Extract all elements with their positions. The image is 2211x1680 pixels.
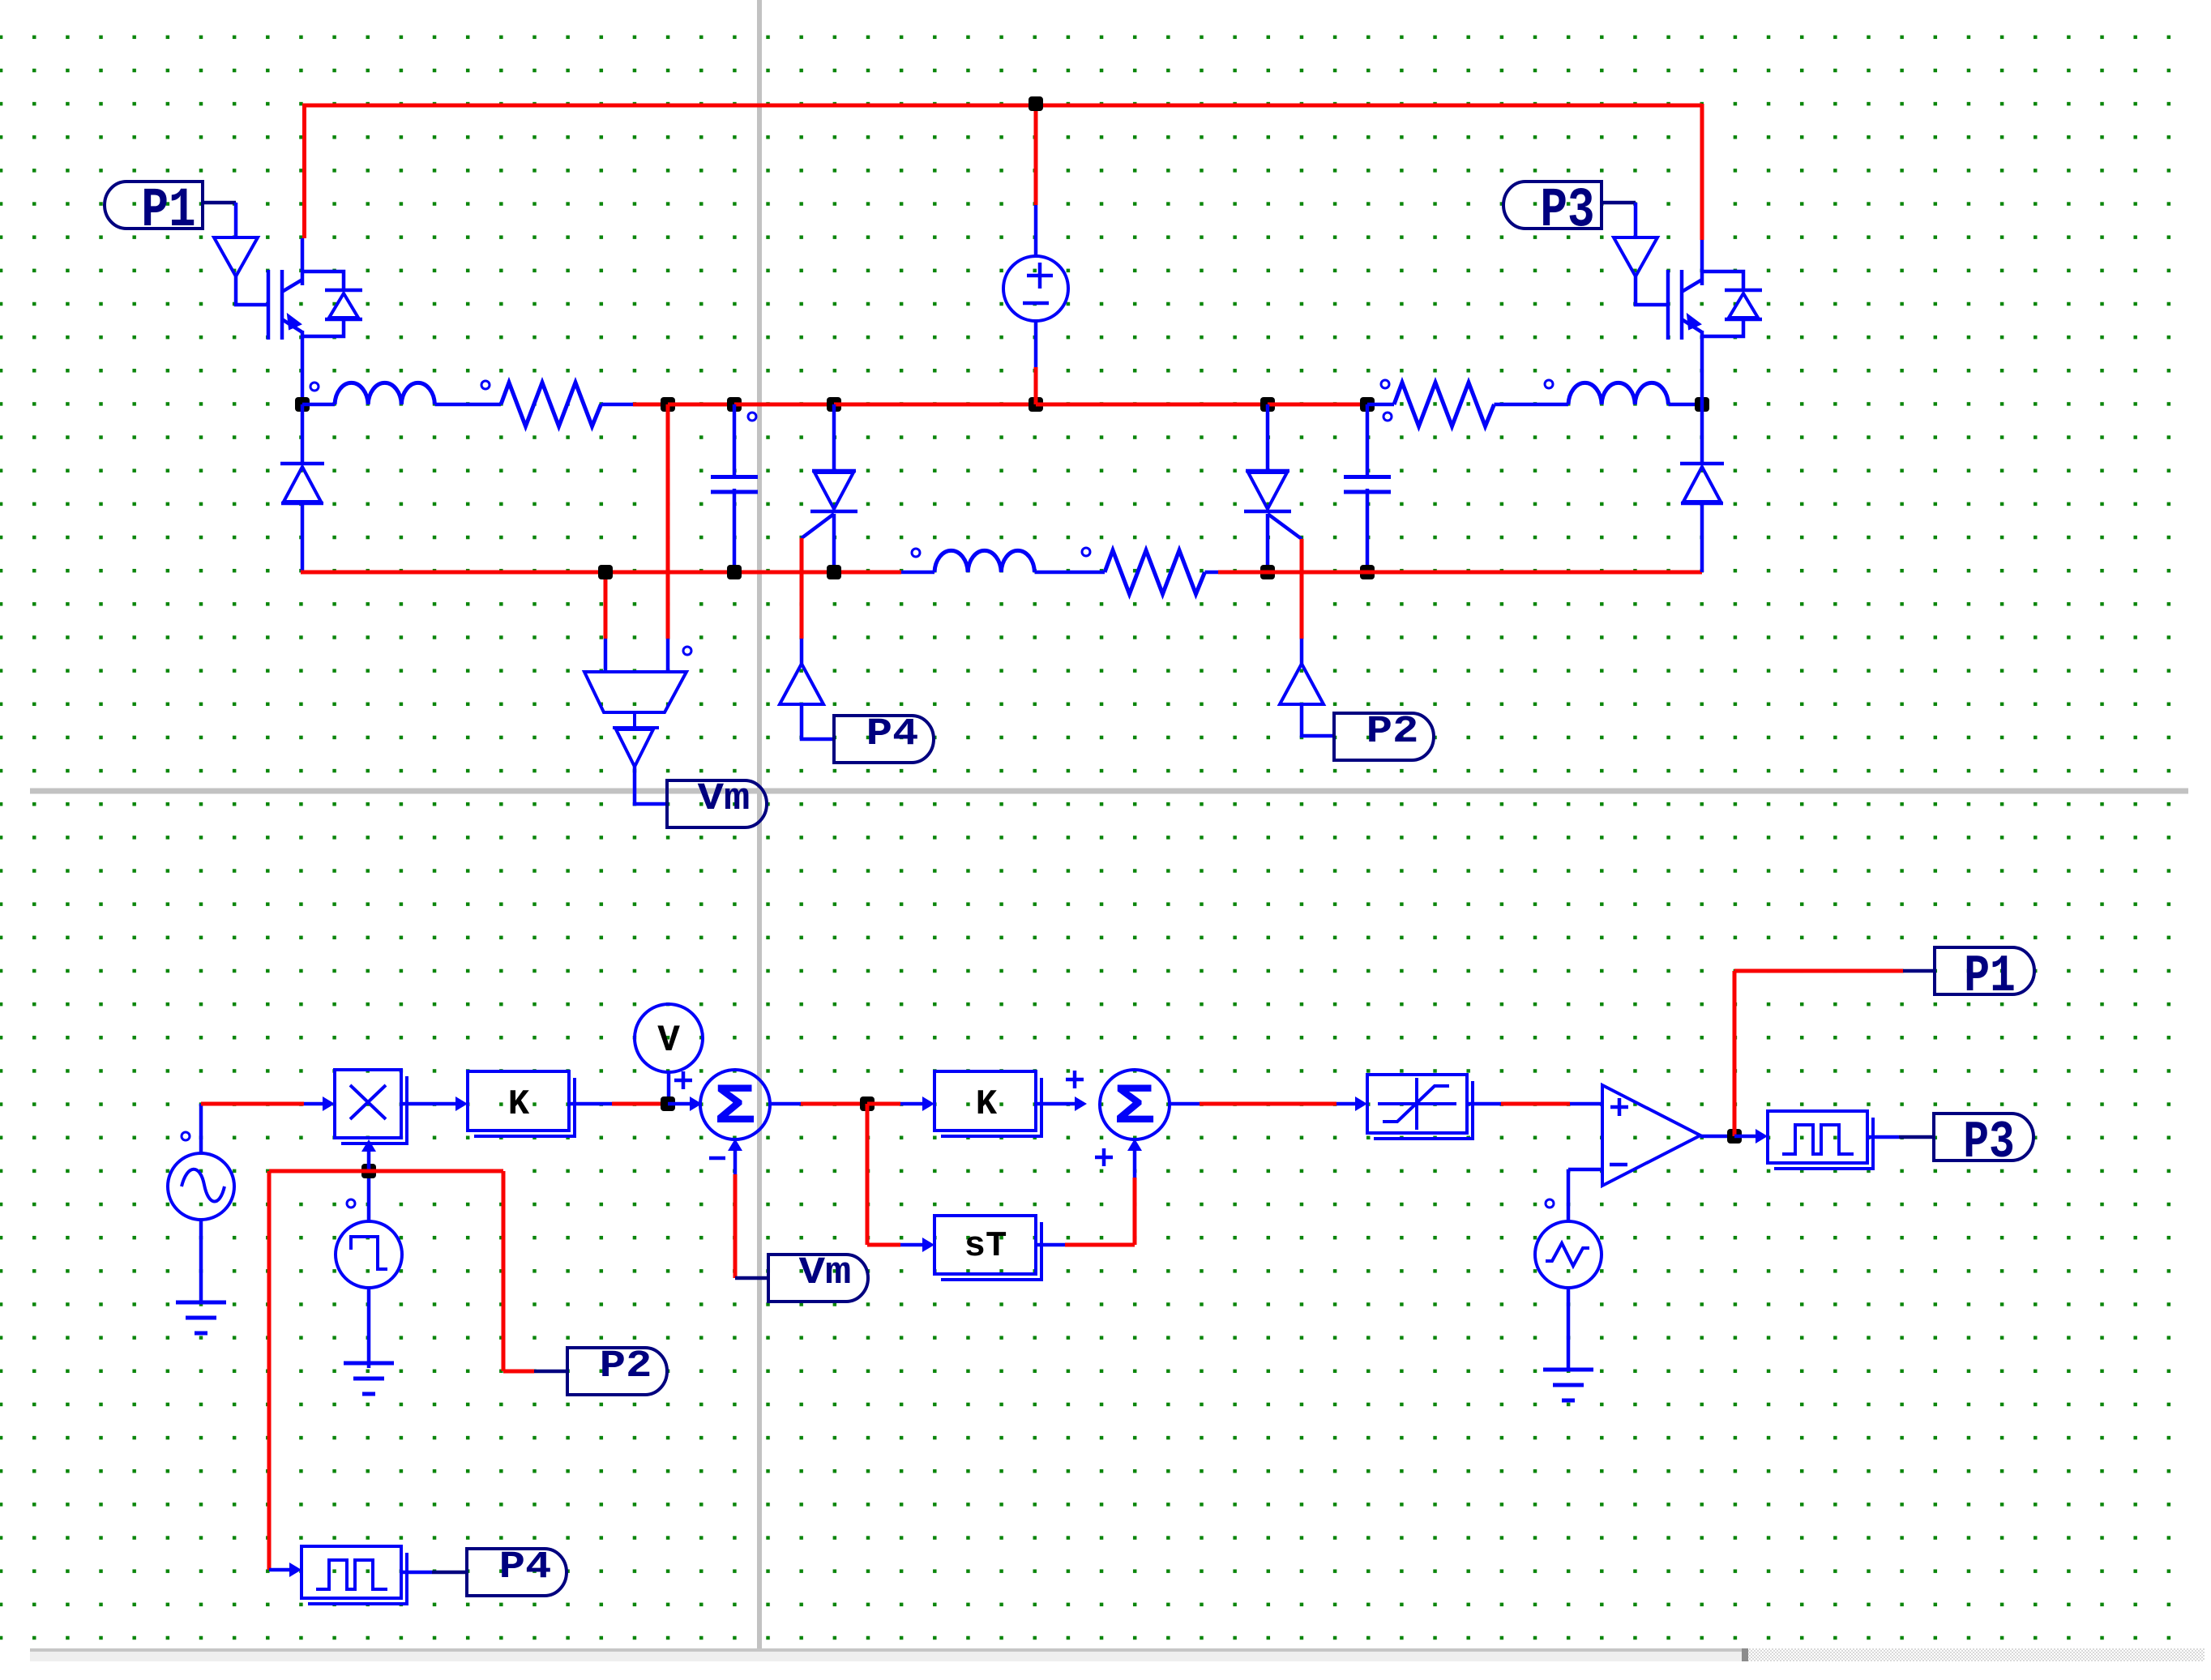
wire into summer S1 [668,1102,691,1106]
wire: P1 flag to gate driver [203,201,236,205]
wire: tee down to derivative sT [866,1104,870,1245]
inductor L1 [302,403,335,407]
terminal marker L2 [1545,380,1553,388]
summer S1 plus sign [674,1071,692,1089]
capacitor C2 [1366,404,1370,475]
svg-text:Vm: Vm [698,778,751,821]
gating block for T1 (P4) [780,664,823,704]
probe label P4 (gate flag) [834,716,934,763]
multiplier block [341,1076,407,1144]
voltage probe V [635,1004,703,1072]
summer S1 minus input from Vm [728,1139,742,1151]
IGBT Q2 with anti-parallel diode [1666,270,1670,340]
terminal marker L3 [912,549,920,557]
svg-text:P2: P2 [1366,711,1419,754]
junction node: C1 bottom [727,565,742,579]
wire: node up to P1 flag (red) [1733,971,1737,1136]
probe label P3 (output flag) [1934,1114,2034,1161]
wire: node to gain K2 [867,1102,900,1106]
svg-text:P3: P3 [1963,1113,2015,1172]
bottom horizontal scrollbar [30,1648,2205,1661]
probe label P1 (gate signal flag) [105,182,203,229]
ground for Vsin1 [176,1301,226,1305]
wire: sT output up to summer S2 [1036,1243,1065,1247]
wire: right rail drop to Q2 collector (red) [1700,104,1704,240]
comparator (op-amp) [1602,1085,1700,1186]
svg-text:P1: P1 [141,179,195,242]
wire: comparator output node [1700,1135,1734,1139]
wire: branch down to on-off controller 2 (red) [267,1171,272,1570]
probe label P1 (output flag) [1935,947,2034,994]
junction node: T2 cathode [1260,565,1275,579]
junction node: top rail to Vdc [1029,96,1043,111]
svg-text:Vm: Vm [799,1252,852,1295]
wire: lower bus right segment (red) [1268,571,1702,575]
resistor R2 [1394,383,1495,426]
gating block for T2 (P2) [1280,664,1324,704]
diode D1 (left leg) [301,404,305,462]
probe label P2 (bottom flag) [567,1348,667,1395]
summer S2 (sigma) [1100,1070,1170,1139]
svg-text:sT: sT [964,1226,1007,1267]
wire: top bus T1 to Vdc (red) [834,403,1036,407]
terminal marker R1 [481,381,490,389]
wire: T1 gate (red) [800,538,804,639]
wire: top bus Vdc to T2 (red) [1036,403,1268,407]
junction node: summer S1 output tee [768,1102,801,1106]
wire: lower-left bus (red) [301,571,901,575]
svg-text:Σ: Σ [714,1075,756,1139]
svg-text:K: K [976,1084,998,1125]
wire: limiter to comparator plus input [1467,1102,1501,1106]
wire: controller 2 to P4 flag [401,1571,432,1575]
wire: left rail drop to Q1 collector (red) [302,104,306,238]
summer S2 plus sign (bottom) [1095,1148,1113,1166]
probe label P3 (gate signal flag) [1503,182,1602,229]
inductor L3 [934,550,1034,572]
svg-text:P4: P4 [866,713,919,756]
svg-text:P1: P1 [1964,947,2016,1006]
wire: controller to P3 flag [1867,1135,1899,1139]
junction node: lower bus sensor tap [598,565,613,579]
terminal marker R3 [1082,548,1090,556]
wire: C2 to R2 (blue) [1367,403,1394,407]
wire: horizontal red to P2 branch [269,1169,503,1173]
wire: P3 flag to gate driver [1602,201,1636,205]
thyristor T2 [1266,404,1270,471]
resistor R3 [1105,550,1205,594]
gain block K2 [941,1078,1041,1136]
wire: summer S2 to limiter [1168,1102,1200,1106]
wire: Vsin1 to multiplier (red) [201,1102,304,1106]
terminal markers R2 / C2 [1381,380,1389,388]
wire: R2 to L2 [1495,403,1569,407]
probe label P2 (gate flag) [1334,713,1434,760]
svg-text:V: V [657,1020,680,1062]
svg-text:P2: P2 [600,1345,652,1388]
window divider horizontal [30,789,2188,794]
wire: multiplier output to gain K1 [401,1102,456,1106]
summer S2 plus sign (top) [1066,1071,1084,1088]
wire: top DC rail (red) [302,104,1702,108]
terminal marker L1 [310,383,319,391]
gain block K1 [474,1078,575,1136]
wire: R3 to T2 leg (blue then red) [1205,571,1219,575]
window divider vertical [757,0,762,1648]
thyristor T1 [832,404,836,471]
wire: K1 output to summing node (blue then red) [567,1102,612,1106]
wire: driver to Q1 gate [236,276,268,305]
junction node: T2 anode [1260,397,1275,412]
diode D2 (right leg) [1700,404,1704,462]
junction node: Q2 emitter / L2 / D2 [1695,397,1709,412]
ground for Vsq [344,1362,394,1366]
voltage sensor Vm (trapezoid) [666,404,670,639]
wire: top bus node B to T1 (red) [734,403,834,407]
svg-text:K: K [508,1084,530,1125]
limiter block [1374,1081,1473,1139]
wire: branch to P2 flag (red) [502,1171,506,1371]
svg-text:Σ: Σ [1114,1075,1156,1139]
junction node: C2 bottom [1360,565,1375,579]
on-off controller block 2 [308,1553,407,1604]
wire: R1 to node A (blue then red) [601,403,634,407]
signal source label Vm (feedback flag) [768,1255,868,1302]
IGBT Q1 with anti-parallel diode [267,270,271,340]
junction node: C2 top [1360,397,1375,412]
junction node: Vdc negative [1029,397,1043,412]
DC source Vdc [1034,109,1038,205]
summer S1 (sigma) [700,1070,770,1139]
junction node: multiplier second input [361,1164,376,1178]
probe label P4 (bottom flag) [467,1549,567,1596]
derivative block sT [941,1222,1041,1280]
svg-text:P4: P4 [499,1546,552,1589]
junction node: T1 anode [827,397,841,412]
sine source Vsin1 [182,1132,190,1140]
junction node: T1 cathode [827,565,841,579]
junction node: Q1 emitter / L1 / D1 [295,397,310,412]
wire: lower bus middle segment [901,571,934,575]
square-wave source Vsq [347,1199,355,1208]
resistor R1 [501,383,601,426]
wire: K2 to summer S2 [1036,1102,1076,1106]
gate driver (inverting buffer) for Q2 [1614,237,1657,276]
ground for Vtri [1543,1368,1593,1372]
signal label Vm (sensor output flag) [667,780,767,827]
junction node: C1 top [727,397,742,412]
on-off controller block 1 [1774,1118,1873,1169]
wire: top bus node A to node B (red) [668,403,734,407]
gate driver (inverting buffer) for Q1 [214,237,258,276]
junction node: top bus at sensor tap [661,397,675,412]
svg-text:P3: P3 [1540,179,1594,242]
wire: top bus T2 to C2 (red) [1268,403,1367,407]
wire: T2 gate (red) [1300,539,1304,639]
inductor L2 [1568,383,1668,404]
junction node: probe tap [661,1096,675,1111]
wire: node into on-off controller [1734,1135,1756,1139]
capacitor C1 [733,404,737,475]
carrier source Vtri [1546,1199,1554,1208]
